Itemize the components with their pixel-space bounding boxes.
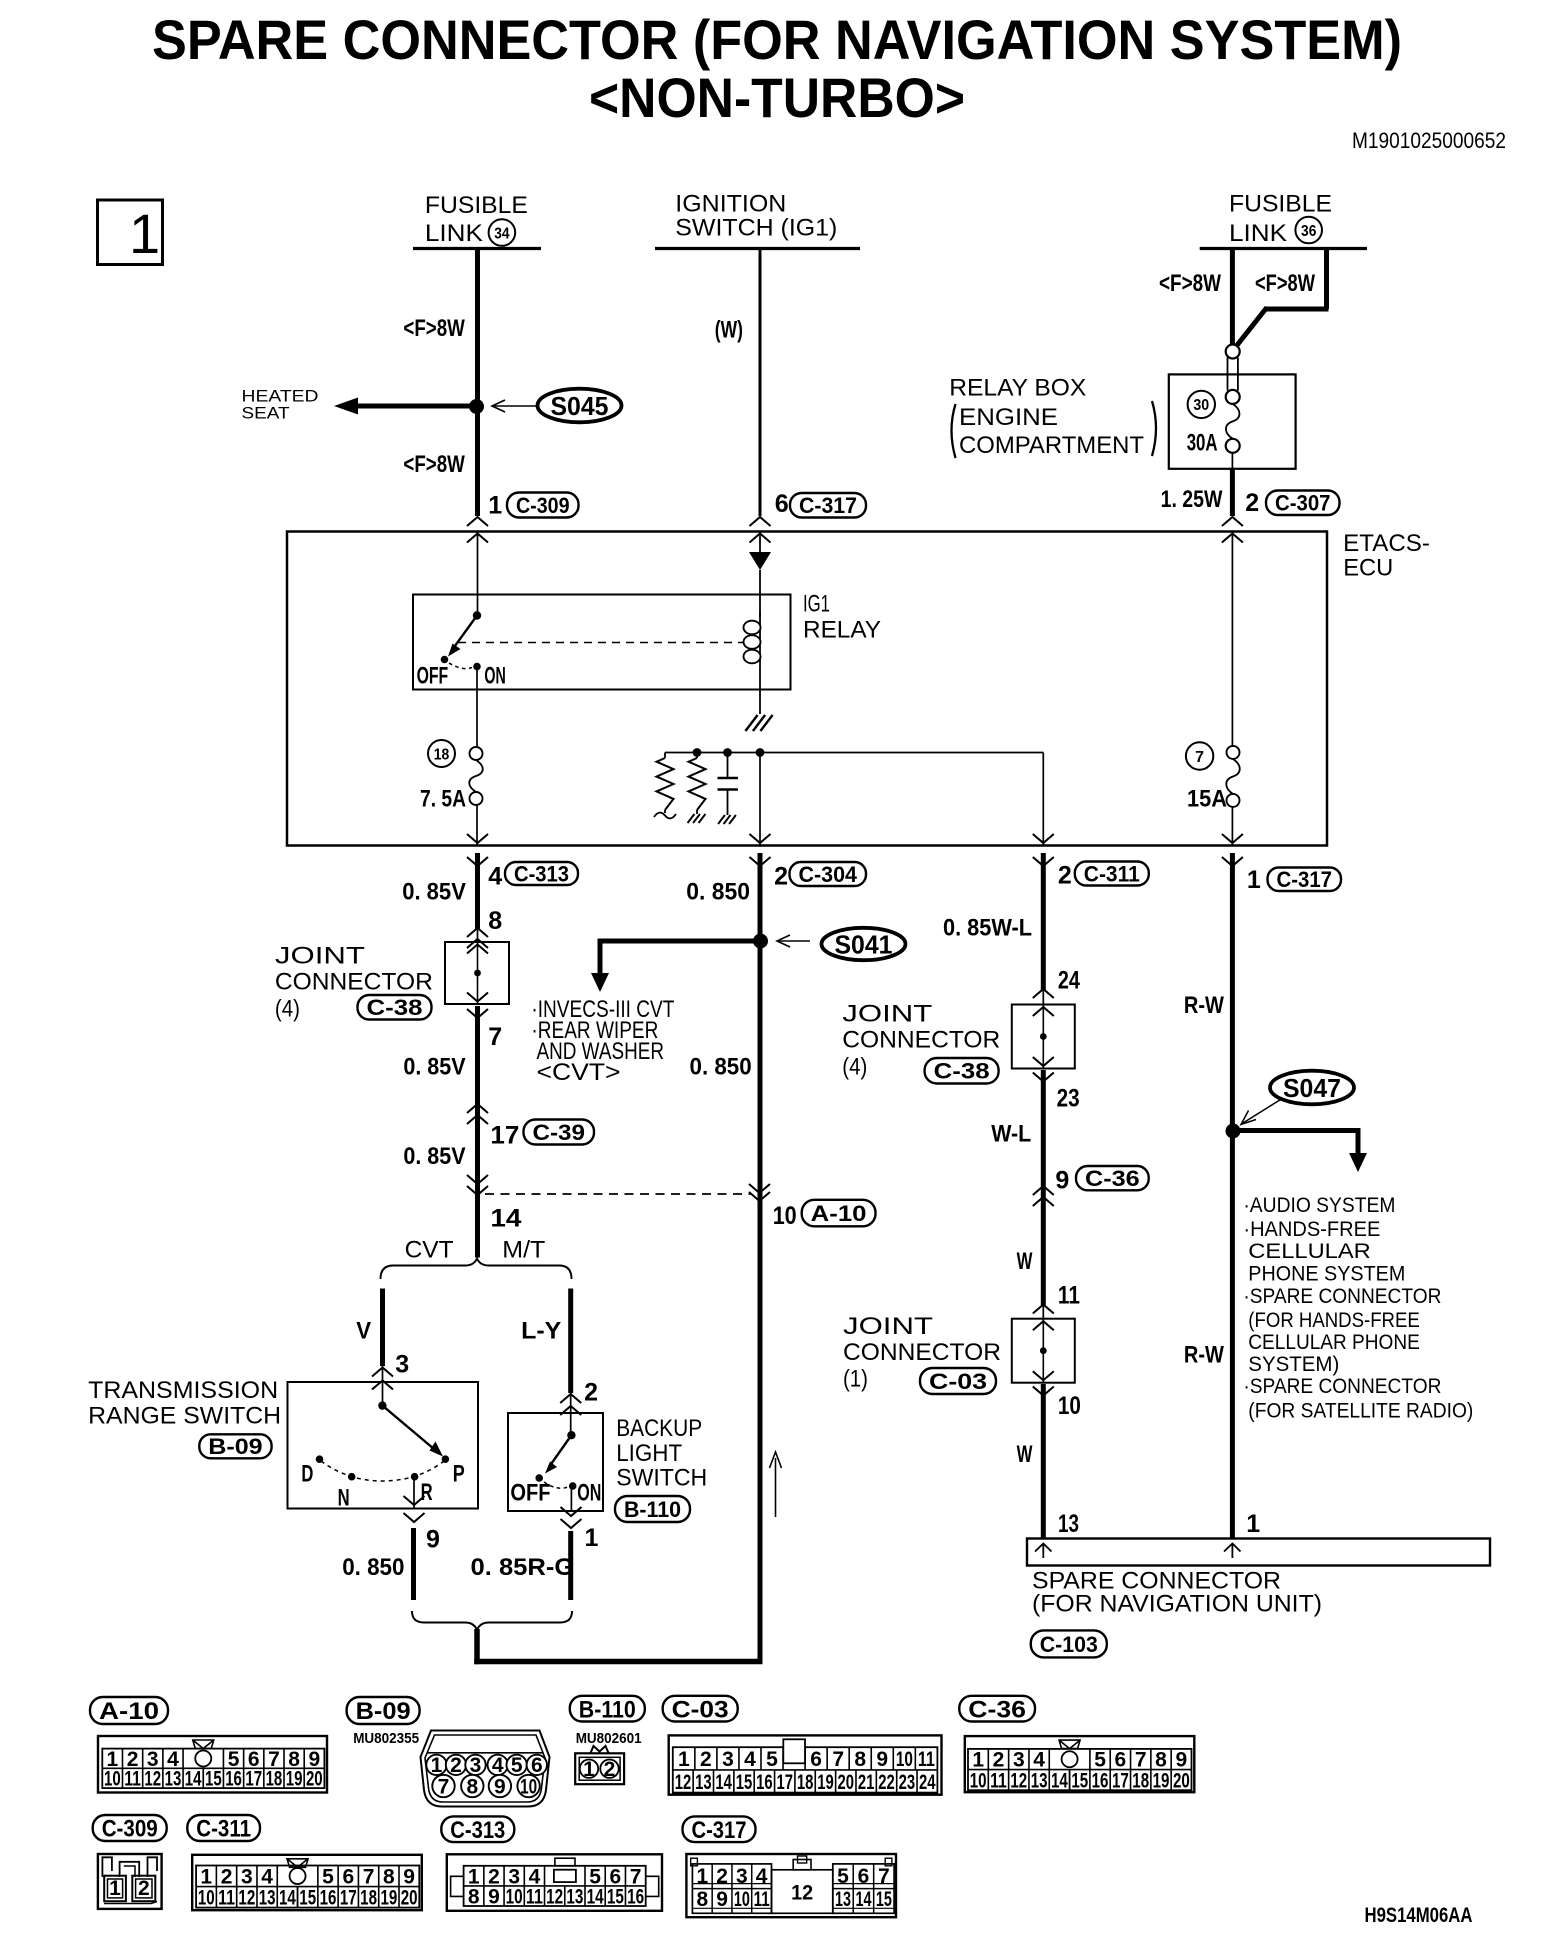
connector label B-09 bottom: [347, 1697, 420, 1724]
relay off-on dashed arc: [449, 663, 472, 669]
svg-text:1. 25W: 1. 25W: [1161, 486, 1223, 513]
svg-text:19: 19: [286, 1768, 303, 1791]
svg-text:4: 4: [488, 863, 502, 891]
svg-text:13: 13: [165, 1768, 182, 1791]
circled 34: [489, 219, 516, 246]
connector label C-309 bottom: [93, 1815, 167, 1841]
svg-text:C-317: C-317: [692, 1817, 747, 1844]
svg-text:2: 2: [584, 1379, 598, 1407]
svg-text:16: 16: [756, 1771, 773, 1794]
svg-text:CONNECTOR: CONNECTOR: [842, 1027, 1000, 1054]
svg-text:18: 18: [797, 1771, 814, 1794]
svg-text:20: 20: [306, 1768, 323, 1791]
svg-text:CELLULAR: CELLULAR: [1248, 1240, 1371, 1263]
wire C-309 to relay switch: [477, 532, 479, 614]
chevrons exiting ECU at C-311: [1033, 834, 1054, 843]
BLS contact ON: [569, 1482, 577, 1490]
svg-text:ON: ON: [577, 1480, 601, 1507]
svg-text:8: 8: [696, 1888, 708, 1911]
svg-text:0. 85W-L: 0. 85W-L: [943, 915, 1032, 942]
svg-text:5: 5: [837, 1865, 849, 1888]
relay box (engine compartment) outline: [1169, 374, 1296, 468]
svg-text:SEAT: SEAT: [242, 404, 290, 423]
wire V branch: [380, 1289, 385, 1367]
svg-text:OFF: OFF: [417, 663, 449, 690]
svg-text:13: 13: [1031, 1769, 1048, 1792]
chevron double at C-36: [1033, 1186, 1054, 1195]
wire C-311 to JC: [1041, 853, 1046, 990]
svg-text:8: 8: [854, 1748, 866, 1771]
svg-text:FUSIBLE: FUSIBLE: [1229, 191, 1332, 218]
svg-text:2: 2: [1058, 862, 1072, 890]
connector label C-311 bottom: [187, 1815, 260, 1841]
svg-text:·SPARE CONNECTOR: ·SPARE CONNECTOR: [1243, 1375, 1441, 1398]
connector pinout C-311: [192, 1855, 422, 1910]
svg-text:·AUDIO SYSTEM: ·AUDIO SYSTEM: [1243, 1194, 1395, 1217]
connector label C-03 inline: [920, 1368, 996, 1394]
svg-text:C-313: C-313: [514, 861, 569, 886]
direction arrow up: [775, 1458, 777, 1517]
splice S041 oval: [822, 928, 906, 960]
svg-text:ETACS-: ETACS-: [1343, 530, 1430, 557]
svg-text:LIGHT: LIGHT: [616, 1440, 682, 1467]
connector label C-317 bottom: [683, 1816, 756, 1842]
svg-text:10: 10: [1058, 1392, 1081, 1420]
svg-text:R-W: R-W: [1184, 1342, 1224, 1369]
svg-text:7: 7: [488, 1023, 502, 1051]
wire IG1 to C-317 (W): [759, 249, 762, 517]
svg-text:11: 11: [124, 1768, 141, 1791]
svg-text:<NON-TURBO>: <NON-TURBO>: [589, 66, 965, 129]
TRS contact R: [411, 1473, 419, 1481]
svg-text:9: 9: [488, 1885, 500, 1908]
svg-text:13: 13: [259, 1887, 276, 1910]
S041 pointer arrow: [779, 940, 810, 942]
svg-text:14: 14: [855, 1888, 871, 1911]
svg-text:12: 12: [238, 1887, 255, 1910]
svg-text:2: 2: [604, 1758, 616, 1781]
connector pinout A-10: [98, 1736, 327, 1793]
chevron double BLS exit: [561, 1507, 582, 1516]
svg-text:S041: S041: [835, 930, 893, 960]
svg-text:TRANSMISSION: TRANSMISSION: [88, 1377, 278, 1404]
wire JC to C-36: [1041, 1070, 1046, 1305]
svg-text:2: 2: [716, 1865, 728, 1888]
svg-text:1: 1: [1246, 1510, 1260, 1538]
chevron above JC C-03: [1033, 1305, 1054, 1314]
wire ON contact down: [570, 1489, 572, 1511]
svg-text:JOINT: JOINT: [275, 943, 365, 970]
connector label B-09 inline: [199, 1434, 271, 1458]
svg-text:23: 23: [1057, 1085, 1080, 1113]
circled 7: [1186, 742, 1213, 769]
svg-text:2: 2: [450, 1754, 462, 1777]
svg-text:W: W: [1017, 1248, 1033, 1275]
svg-text:JOINT: JOINT: [843, 1313, 933, 1340]
splice junction S041 dot: [753, 934, 768, 949]
svg-text:21: 21: [858, 1771, 875, 1794]
svg-text:4: 4: [261, 1866, 273, 1889]
svg-text:1: 1: [585, 1524, 599, 1552]
chevrons exiting ECU at C-317 pin1: [1222, 834, 1243, 843]
svg-text:0. 850: 0. 850: [686, 879, 750, 906]
svg-text:C-309: C-309: [516, 493, 570, 518]
circled 36: [1295, 217, 1322, 244]
svg-text:W-L: W-L: [991, 1121, 1031, 1148]
svg-text:<F>8W: <F>8W: [403, 451, 465, 478]
svg-text:SWITCH: SWITCH: [616, 1465, 707, 1492]
wire TRS pin9 down: [411, 1528, 416, 1600]
svg-text:16: 16: [320, 1887, 337, 1910]
TRS contact P: [442, 1455, 450, 1463]
brace cvt-mt split: [381, 1259, 572, 1280]
svg-text:COMPARTMENT: COMPARTMENT: [959, 432, 1144, 459]
svg-text:16: 16: [225, 1768, 242, 1791]
svg-text:B-110: B-110: [579, 1696, 636, 1723]
svg-text:0. 85V: 0. 85V: [403, 1143, 465, 1170]
svg-text:12: 12: [546, 1885, 563, 1908]
svg-text:14: 14: [490, 1205, 521, 1233]
svg-text:15: 15: [876, 1888, 892, 1911]
relay coil: [759, 613, 761, 672]
svg-text:(W): (W): [715, 317, 743, 344]
svg-text:D: D: [301, 1461, 313, 1488]
svg-text:34: 34: [494, 225, 509, 242]
svg-text:LINK: LINK: [1229, 220, 1287, 247]
svg-text:17: 17: [1112, 1769, 1129, 1792]
svg-text:H9S14M06AA: H9S14M06AA: [1365, 1904, 1473, 1927]
svg-text:IG1: IG1: [803, 591, 830, 618]
svg-text:PHONE SYSTEM: PHONE SYSTEM: [1248, 1263, 1405, 1286]
svg-text:13: 13: [695, 1771, 712, 1794]
wire C-304 down: [758, 853, 763, 1664]
svg-text:13: 13: [835, 1888, 851, 1911]
svg-text:11: 11: [754, 1888, 770, 1911]
TRS arm: [382, 1406, 434, 1449]
svg-text:3: 3: [1013, 1749, 1025, 1772]
connector pinout C-317: [686, 1854, 896, 1917]
svg-text:CVT: CVT: [405, 1237, 454, 1264]
svg-text:FUSIBLE: FUSIBLE: [425, 192, 528, 219]
fuse 18 (7.5A): [476, 670, 478, 747]
TRS dashed arc: [321, 1461, 444, 1481]
svg-text:P: P: [453, 1461, 465, 1488]
svg-text:(1): (1): [843, 1366, 868, 1393]
svg-text:4: 4: [1033, 1749, 1045, 1772]
svg-text:8: 8: [488, 907, 502, 935]
svg-text:10: 10: [104, 1768, 121, 1791]
svg-text:7: 7: [1135, 1749, 1147, 1772]
chevron below JC right: [1033, 1073, 1054, 1082]
svg-text:10: 10: [970, 1769, 987, 1792]
chevron double at pin 8: [467, 928, 488, 937]
wire BLS pin1 down: [568, 1531, 573, 1600]
fusible element 30A: [1226, 345, 1240, 359]
wire C-317 to spare connector: [1230, 853, 1235, 1539]
svg-text:15: 15: [205, 1768, 222, 1791]
node dot main: [756, 748, 765, 757]
svg-text:1: 1: [109, 1877, 121, 1900]
svg-text:16: 16: [627, 1885, 644, 1908]
S045 pointer arrow: [494, 405, 537, 407]
svg-text:10: 10: [198, 1887, 215, 1910]
relay dashed link line: [458, 642, 743, 644]
wire FL34 to C-309 (8W): [475, 249, 480, 517]
svg-text:19: 19: [817, 1771, 834, 1794]
svg-text:M1901025000652: M1901025000652: [1352, 128, 1506, 153]
svg-text:6: 6: [858, 1865, 870, 1888]
svg-text:12: 12: [1010, 1769, 1027, 1792]
relay coil ground: [745, 715, 772, 731]
joint connector C-38 left box: [445, 942, 509, 1004]
svg-text:11: 11: [990, 1769, 1007, 1792]
connector label A-10 bottom: [90, 1697, 168, 1724]
resistor R2 ground: [688, 814, 706, 823]
svg-text:1: 1: [678, 1748, 690, 1771]
circled 30: [1188, 391, 1215, 418]
diode on IG1 line: [749, 552, 771, 570]
relay contact ON: [473, 663, 481, 671]
svg-text:1: 1: [1247, 866, 1261, 894]
joint connector C-03 box: [1012, 1319, 1075, 1383]
dashed connector line A-10: [485, 1193, 752, 1195]
svg-text:24: 24: [919, 1771, 936, 1794]
svg-text:R-W: R-W: [1184, 992, 1224, 1019]
wire JC C-03 to spare connector: [1041, 1384, 1046, 1539]
svg-text:18: 18: [1132, 1769, 1149, 1792]
chevron above JC right: [1033, 989, 1054, 998]
svg-text:3: 3: [470, 1754, 482, 1777]
ETACS-ECU box: [287, 532, 1327, 846]
svg-text:9: 9: [403, 1866, 415, 1889]
svg-text:20: 20: [838, 1771, 855, 1794]
internal bus line: [665, 752, 1043, 754]
connector label C-317 top: [790, 493, 866, 518]
svg-text:5: 5: [766, 1748, 778, 1771]
connector label C-309 top: [507, 493, 579, 518]
svg-text:13: 13: [566, 1885, 583, 1908]
BLS off-on dashed arc: [544, 1482, 568, 1488]
svg-text:S045: S045: [551, 391, 609, 421]
svg-text:36: 36: [1301, 223, 1316, 240]
wire brace to middle column: [477, 1629, 763, 1662]
svg-text:C-38: C-38: [934, 1059, 990, 1084]
svg-text:11: 11: [218, 1887, 235, 1910]
svg-text:C-307: C-307: [1275, 491, 1331, 516]
svg-text:0. 850: 0. 850: [342, 1554, 404, 1581]
svg-text:0. 85R-G: 0. 85R-G: [471, 1554, 575, 1581]
TRS contact N: [348, 1473, 356, 1481]
svg-text:9: 9: [1175, 1749, 1187, 1772]
capacitor C1 (internal): [727, 753, 729, 779]
svg-text:C-36: C-36: [968, 1696, 1026, 1723]
svg-text:1: 1: [696, 1865, 708, 1888]
wire FL36 left leg: [1230, 249, 1235, 346]
svg-text:6: 6: [810, 1748, 822, 1771]
svg-text:C-313: C-313: [450, 1817, 505, 1844]
svg-text:14: 14: [587, 1885, 604, 1908]
svg-text:15: 15: [736, 1771, 753, 1794]
svg-text:S047: S047: [1283, 1073, 1341, 1103]
svg-text:12: 12: [675, 1771, 692, 1794]
svg-text:W: W: [1017, 1441, 1033, 1468]
svg-text:14: 14: [1051, 1769, 1068, 1792]
svg-text:C-103: C-103: [1040, 1632, 1098, 1657]
svg-text:RELAY: RELAY: [803, 617, 881, 644]
BLS pivot: [567, 1431, 575, 1439]
connector label C-313 mid: [505, 862, 578, 885]
svg-text:19: 19: [1153, 1769, 1170, 1792]
svg-text:C-311: C-311: [1084, 861, 1140, 886]
svg-text:23: 23: [899, 1771, 916, 1794]
svg-text:10: 10: [896, 1748, 913, 1771]
svg-text:7. 5A: 7. 5A: [420, 786, 466, 813]
svg-text:22: 22: [878, 1771, 895, 1794]
svg-text:M/T: M/T: [502, 1237, 545, 1264]
svg-text:ECU: ECU: [1343, 555, 1393, 582]
svg-text:0. 85V: 0. 85V: [403, 1054, 465, 1081]
S047 pointer arrow: [1243, 1098, 1283, 1123]
svg-text:24: 24: [1058, 967, 1080, 995]
wire relay to C-304 exit: [759, 753, 761, 846]
svg-text:6: 6: [342, 1866, 354, 1889]
svg-text:<F>8W: <F>8W: [1255, 270, 1315, 297]
ignition switch terminal bar: [655, 247, 860, 250]
svg-text:8: 8: [1155, 1749, 1167, 1772]
svg-text:30A: 30A: [1187, 430, 1218, 457]
svg-text:20: 20: [1173, 1769, 1190, 1792]
svg-text:<F>8W: <F>8W: [1159, 270, 1221, 297]
chevron double TRS exit: [404, 1496, 425, 1505]
spare connector box: [1027, 1539, 1490, 1566]
chevrons entering ECU at C-317: [750, 517, 771, 526]
chevron below JC C-03: [1033, 1387, 1054, 1396]
svg-text:C-36: C-36: [1085, 1166, 1140, 1191]
svg-text:C-311: C-311: [196, 1816, 251, 1843]
svg-text:10: 10: [773, 1202, 797, 1230]
svg-text:MU802355: MU802355: [353, 1730, 419, 1747]
connector label C-304: [790, 862, 867, 886]
relay switch arm: [452, 616, 477, 651]
svg-text:8: 8: [466, 1775, 478, 1798]
svg-text:9: 9: [494, 1775, 506, 1798]
TRS contact D: [316, 1455, 324, 1463]
svg-text:2: 2: [1245, 489, 1259, 517]
svg-text:14: 14: [279, 1887, 296, 1910]
svg-text:2: 2: [774, 863, 788, 891]
svg-text:OFF: OFF: [510, 1480, 550, 1507]
svg-text:SWITCH (IG1): SWITCH (IG1): [675, 215, 837, 242]
chevron double at C-39: [467, 1104, 488, 1113]
svg-text:8: 8: [468, 1885, 480, 1908]
connector pinout C-313: [447, 1854, 662, 1911]
svg-text:18: 18: [360, 1887, 377, 1910]
spare connector terminal 13: [1035, 1544, 1052, 1559]
svg-text:3: 3: [722, 1748, 734, 1771]
fusible link 34 terminal bar: [413, 247, 541, 250]
svg-text:7: 7: [878, 1865, 890, 1888]
spare connector terminal 1: [1224, 1544, 1241, 1559]
svg-text:(4): (4): [275, 996, 300, 1023]
connector pinout B-110: [591, 1746, 609, 1753]
svg-text:A-10: A-10: [811, 1201, 867, 1226]
svg-text:(4): (4): [842, 1054, 867, 1081]
svg-text:4: 4: [756, 1865, 768, 1888]
svg-text:17: 17: [490, 1122, 519, 1150]
svg-text:CONNECTOR: CONNECTOR: [275, 969, 433, 996]
chevrons exiting ECU at C-304: [750, 834, 771, 843]
svg-text:9: 9: [876, 1748, 888, 1771]
svg-text:15A: 15A: [1187, 786, 1227, 813]
svg-text:10: 10: [506, 1885, 523, 1908]
BLS arm: [549, 1435, 571, 1467]
connector label B-110 inline: [615, 1496, 690, 1522]
svg-text:C-03: C-03: [929, 1369, 987, 1394]
svg-text:18: 18: [434, 746, 450, 763]
wire into BLS: [570, 1393, 572, 1435]
svg-text:8: 8: [383, 1866, 395, 1889]
svg-text:18: 18: [266, 1768, 283, 1791]
svg-text:15: 15: [299, 1887, 316, 1910]
svg-text:0. 85V: 0. 85V: [402, 879, 466, 906]
wire R contact down: [413, 1480, 415, 1509]
svg-text:·HANDS-FREE: ·HANDS-FREE: [1243, 1218, 1380, 1241]
TRS pivot: [378, 1401, 386, 1409]
svg-text:11: 11: [526, 1885, 543, 1908]
brace join 9-1: [412, 1611, 572, 1630]
svg-text:15: 15: [607, 1885, 624, 1908]
svg-text:IGNITION: IGNITION: [675, 191, 786, 218]
S047 branch arrow: [1233, 1128, 1358, 1133]
connector label C-307: [1266, 491, 1340, 516]
connector label C-03 bottom: [663, 1696, 738, 1722]
svg-text:RANGE SWITCH: RANGE SWITCH: [88, 1403, 281, 1430]
svg-text:7: 7: [438, 1775, 450, 1798]
svg-text:1: 1: [431, 1754, 443, 1777]
connector pinout C-36: [965, 1736, 1195, 1792]
svg-text:7: 7: [832, 1748, 844, 1771]
svg-text:N: N: [338, 1485, 350, 1512]
svg-text:20: 20: [401, 1887, 418, 1910]
svg-text:SYSTEM): SYSTEM): [1248, 1353, 1339, 1376]
wire into JC C-03: [1042, 1305, 1044, 1319]
svg-text:7: 7: [1195, 749, 1204, 766]
connector label C-313 bottom: [441, 1816, 514, 1842]
connector label C-311 mid: [1075, 862, 1149, 886]
svg-text:2: 2: [993, 1749, 1005, 1772]
svg-text:3: 3: [395, 1351, 409, 1379]
svg-text:7: 7: [363, 1866, 375, 1889]
heated seat branch wire: [356, 404, 478, 409]
splice S047 oval: [1270, 1071, 1354, 1105]
page index box 1: [98, 200, 163, 265]
svg-text:RELAY BOX: RELAY BOX: [949, 375, 1086, 402]
connector pinout B-09: [421, 1731, 550, 1807]
svg-text:5: 5: [511, 1754, 523, 1777]
svg-text:C-317: C-317: [1277, 867, 1333, 892]
svg-text:14: 14: [715, 1771, 732, 1794]
chevrons entering ECU at C-309: [467, 517, 488, 526]
connector pinout C-03: [669, 1735, 942, 1794]
svg-text:<CVT>: <CVT>: [537, 1059, 621, 1086]
fuse 7 (15A): [1231, 532, 1233, 748]
svg-text:C-39: C-39: [533, 1120, 586, 1145]
svg-text:1: 1: [488, 492, 502, 520]
svg-text:13: 13: [1058, 1510, 1079, 1538]
svg-text:2: 2: [700, 1748, 712, 1771]
wire L-Y branch: [568, 1289, 573, 1394]
svg-text:C-309: C-309: [102, 1816, 158, 1843]
